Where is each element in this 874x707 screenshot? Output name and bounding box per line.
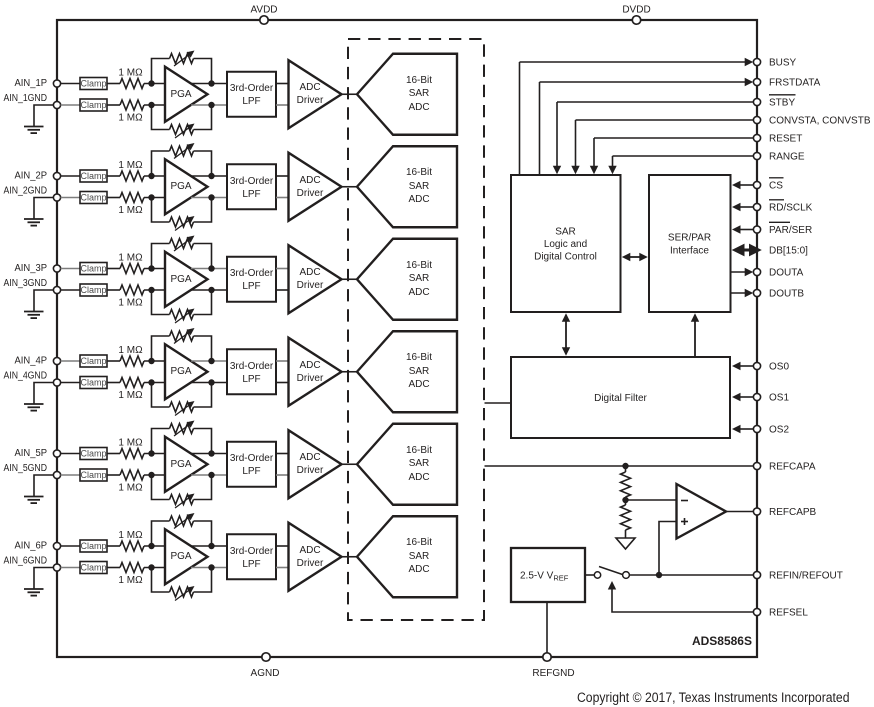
terminal AIN_5GND [53,471,60,478]
wire driver to ADC CH1 [342,93,358,95]
feedback potentiometer CH5 top [152,421,212,454]
wire driver to ADC CH6 [342,556,358,558]
svg-text:AIN_3GND: AIN_3GND [4,278,48,289]
junction CH4P output [208,358,214,364]
svg-text:LPF: LPF [242,96,260,107]
pin PAR/SER [732,222,812,236]
junction CH1P input [148,80,154,86]
wire driver to ADC CH5 [342,463,358,465]
svg-text:AIN_5P: AIN_5P [15,448,48,459]
junction CH6P input [148,543,154,549]
filter LPF CH4 [227,349,276,394]
junction CH3P output [208,265,214,271]
svg-text:Clamp: Clamp [80,264,106,274]
svg-text:SAR: SAR [409,273,430,284]
node AIN_1P [15,78,48,89]
ground symbol CH4 [24,383,54,411]
svg-text:ADC: ADC [408,472,429,483]
clamp CH4P [80,355,107,367]
filter LPF CH1 [227,72,276,117]
ground terminal AGND [251,653,280,679]
feedback potentiometer CH6 bottom [152,568,212,601]
svg-text:ADC: ADC [408,564,429,575]
block SAR Logic and Digital Control [511,175,621,312]
op-amp ADC Driver CH2 [289,153,342,221]
wire clamp to R CH5G [107,474,120,476]
net REFSEL [608,581,809,619]
svg-text:REFCAPB: REFCAPB [769,507,817,518]
pin OS0 [732,362,789,373]
svg-text:PGA: PGA [170,366,191,377]
svg-text:PGA: PGA [170,551,191,562]
clamp CH2G [80,192,107,204]
svg-text:3rd-Order: 3rd-Order [230,361,274,372]
wire op-amp noninverting input [659,522,677,576]
svg-text:DVDD: DVDD [622,5,650,16]
node AIN_5P [15,448,48,459]
svg-text:Clamp: Clamp [80,378,106,388]
terminal AIN_3GND [53,286,60,293]
svg-text:AIN_5GND: AIN_5GND [4,463,48,474]
svg-text:1 MΩ: 1 MΩ [118,530,143,541]
net REFCAPB [726,507,817,518]
block SER/PAR Interface [649,175,731,312]
svg-text:ADC: ADC [299,175,320,186]
wire PGA out CH6G [191,567,227,569]
resistor divider top [621,466,631,500]
wire R to PGA CH5P [144,453,165,455]
svg-text:ADC: ADC [299,267,320,278]
svg-text:Clamp: Clamp [80,563,106,573]
wire AIN_6P to clamp [61,545,81,547]
svg-text:SAR: SAR [409,181,430,192]
wire LPF to driver CH5G [276,474,289,476]
pin DOUTA [731,268,804,279]
svg-text:Driver: Driver [297,188,324,199]
junction CH6G output [208,564,214,570]
filter LPF CH6 [227,534,276,579]
wire LPF to driver CH6P [276,545,289,547]
junction CH2P output [208,173,214,179]
svg-text:AIN_2GND: AIN_2GND [4,186,48,197]
wire AIN_4P to clamp [61,360,81,362]
svg-text:Copyright © 2017, Texas Instru: Copyright © 2017, Texas Instruments Inco… [577,690,850,705]
filter LPF CH2 [227,164,276,209]
pin OS1 [732,393,789,404]
filter LPF CH5 [227,442,276,487]
wire LPF to driver CH6G [276,567,289,569]
wire PGA out CH3G [191,289,227,291]
svg-text:LPF: LPF [242,189,260,200]
op-amp PGA CH4 [165,344,208,399]
wire clamp to R CH1P [107,83,120,85]
op-amp ADC Driver CH4 [289,338,342,406]
block Digital Filter [511,357,730,438]
junction REFCAPA divider [622,463,628,469]
wire clamp to R CH2P [107,175,120,177]
power terminal DVDD [622,5,650,25]
pin RD/SCLK [732,200,813,214]
svg-text:ADC: ADC [299,545,320,556]
terminal AIN_6P [53,542,60,549]
wire VREF to switch [585,574,594,576]
node AIN_6P [15,541,48,552]
wire R to PGA CH4G [144,382,165,384]
terminal AIN_2P [53,172,60,179]
svg-text:Clamp: Clamp [80,449,106,459]
voltage reference 2.5-V VREF [511,548,585,602]
clamp CH1P [80,78,107,90]
resistor divider bottom [621,500,631,538]
resistor 1 M&#937; CH4G [118,378,144,402]
svg-text:LPF: LPF [242,281,260,292]
ground symbol CH1 [24,105,54,133]
svg-text:ADC: ADC [408,379,429,390]
svg-text:1 MΩ: 1 MΩ [118,113,143,124]
svg-text:ADC: ADC [299,360,320,371]
node AIN_4GND [4,371,48,382]
terminal AIN_4GND [53,379,60,386]
wire driver to ADC CH3 [342,278,358,280]
svg-text:16-Bit: 16-Bit [406,75,432,86]
svg-text:OS1: OS1 [769,393,789,404]
wire LPF to driver CH3G [276,289,289,291]
ADC 16-Bit SAR CH2 [357,146,457,227]
svg-text:SAR: SAR [555,227,576,238]
wire clamp to R CH6P [107,545,120,547]
svg-text:ADC: ADC [408,287,429,298]
svg-text:OS2: OS2 [769,425,789,436]
svg-text:RD/SCLK: RD/SCLK [769,203,813,214]
filter LPF CH3 [227,257,276,302]
ADC 16-Bit SAR CH1 [357,54,457,135]
ground terminal REFGND [532,602,574,679]
svg-text:3rd-Order: 3rd-Order [230,453,274,464]
svg-text:3rd-Order: 3rd-Order [230,268,274,279]
junction CH2G output [208,194,214,200]
op-amp ADC Driver CH1 [289,60,342,128]
svg-text:Driver: Driver [297,373,324,384]
resistor 1 M&#937; CH6P [118,530,144,551]
pin CS [732,178,784,192]
IC boundary ADS8586S [57,20,757,657]
svg-text:REFIN/REFOUT: REFIN/REFOUT [769,571,843,582]
clamp CH5G [80,469,107,481]
svg-text:AIN_4GND: AIN_4GND [4,371,48,382]
svg-text:1 MΩ: 1 MΩ [118,160,143,171]
svg-text:Driver: Driver [297,558,324,569]
wire AIN_3P to clamp [61,268,81,270]
svg-text:CONVSTA, CONVSTB: CONVSTA, CONVSTB [769,116,871,127]
wire clamp to R CH3P [107,268,120,270]
clamp CH4G [80,377,107,389]
svg-text:DOUTA: DOUTA [769,268,804,279]
svg-text:REFGND: REFGND [532,668,574,679]
wire PGA out CH2P [191,175,227,177]
svg-text:SER/PAR: SER/PAR [668,233,711,244]
resistor 1 M&#937; CH4P [118,345,144,366]
feedback potentiometer CH6 top [152,513,212,546]
wire divider to op-amp inverting input [626,499,677,501]
svg-text:ADS8586S: ADS8586S [692,634,752,648]
feedback potentiometer CH4 bottom [152,383,212,416]
dashed boundary ADC group [348,39,484,620]
junction CH4P input [148,358,154,364]
label ADS8586S [692,634,752,648]
wire LPF to driver CH2G [276,197,289,199]
wire R to PGA CH2G [144,197,165,199]
clamp CH6P [80,540,107,552]
svg-text:AIN_4P: AIN_4P [15,356,48,367]
junction divider mid [622,497,628,503]
svg-text:1 MΩ: 1 MΩ [118,205,143,216]
bus DB[15:0] [732,244,808,257]
wire AIN_4GND to clamp [61,382,81,384]
wire clamp to R CH2G [107,197,120,199]
junction CH4G output [208,379,214,385]
svg-text:Clamp: Clamp [80,285,106,295]
op-amp ADC Driver CH6 [289,523,342,591]
pin CONVSTA, CONVSTB [571,116,871,175]
wire PGA out CH1G [191,104,227,106]
svg-text:16-Bit: 16-Bit [406,352,432,363]
ADC 16-Bit SAR CH6 [357,516,457,597]
op-amp PGA CH5 [165,437,208,492]
resistor 1 M&#937; CH2G [118,193,144,217]
svg-text:DB[15:0]: DB[15:0] [769,246,808,257]
op-amp PGA CH6 [165,529,208,584]
svg-text:Digital Control: Digital Control [534,252,597,263]
resistor 1 M&#937; CH3P [118,253,144,274]
wire PGA out CH3P [191,268,227,270]
op-amp PGA CH2 [165,159,208,214]
pin BUSY [520,58,797,175]
wire Digital Filter to SER/PAR [691,313,699,357]
junction CH1G output [208,102,214,108]
svg-text:AVDD: AVDD [250,5,277,16]
pin FRSTDATA [540,78,821,175]
svg-text:Clamp: Clamp [80,470,106,480]
svg-text:PGA: PGA [170,274,191,285]
svg-text:PGA: PGA [170,459,191,470]
wire LPF to driver CH5P [276,453,289,455]
svg-text:LPF: LPF [242,374,260,385]
ADC 16-Bit SAR CH3 [357,239,457,320]
analog ground symbol [616,538,635,549]
wire clamp to R CH6G [107,567,120,569]
label copyright [577,690,850,705]
junction CH3G output [208,287,214,293]
op-amp ADC Driver CH3 [289,245,342,313]
svg-text:Driver: Driver [297,95,324,106]
junction CH6P output [208,543,214,549]
feedback potentiometer CH5 bottom [152,475,212,508]
svg-text:Interface: Interface [670,246,709,257]
wire R to PGA CH1P [144,83,165,85]
wire LPF to driver CH4P [276,360,289,362]
junction CH4G input [148,379,154,385]
wire clamp to R CH3G [107,289,120,291]
node AIN_2P [15,171,48,182]
clamp CH1G [80,99,107,111]
wire clamp to R CH1G [107,104,120,106]
svg-text:1 MΩ: 1 MΩ [118,438,143,449]
op-amp ADC Driver CH5 [289,430,342,498]
op-amp PGA CH1 [165,67,208,122]
wire R to PGA CH2P [144,175,165,177]
svg-text:REFSEL: REFSEL [769,608,808,619]
wire LPF to driver CH3P [276,268,289,270]
terminal AIN_4P [53,357,60,364]
junction CH1G input [148,102,154,108]
svg-text:LPF: LPF [242,559,260,570]
clamp CH3P [80,263,107,275]
pin DOUTB [731,289,805,300]
terminal AIN_2GND [53,194,60,201]
wire AIN_2GND to clamp [61,197,81,199]
svg-text:1 MΩ: 1 MΩ [118,68,143,79]
wire driver to ADC CH4 [342,371,358,373]
svg-text:DOUTB: DOUTB [769,289,804,300]
svg-text:Clamp: Clamp [80,100,106,110]
svg-text:PGA: PGA [170,181,191,192]
svg-text:1 MΩ: 1 MΩ [118,345,143,356]
clamp CH6G [80,562,107,574]
node AIN_2GND [4,186,48,197]
resistor 1 M&#937; CH5P [118,438,144,459]
svg-text:AGND: AGND [251,668,280,679]
wire AIN_2P to clamp [61,175,81,177]
svg-text:LPF: LPF [242,466,260,477]
ADC 16-Bit SAR CH4 [357,331,457,412]
terminal AIN_5P [53,450,60,457]
feedback potentiometer CH1 top [152,51,212,84]
terminal AIN_1GND [53,101,60,108]
junction REFIN [656,572,662,578]
ground symbol CH2 [24,198,54,226]
bus SAR to SER/PAR [622,253,648,261]
feedback potentiometer CH2 top [152,143,212,176]
svg-text:STBY: STBY [769,98,795,109]
node AIN_3P [15,263,48,274]
resistor 1 M&#937; CH3G [118,285,144,309]
svg-text:3rd-Order: 3rd-Order [230,83,274,94]
svg-text:REFCAPA: REFCAPA [769,462,816,473]
pin RESET [590,134,803,175]
junction CH5G input [148,472,154,478]
svg-text:SAR: SAR [409,366,430,377]
net REFIN/REFOUT [630,571,843,582]
feedback potentiometer CH4 top [152,328,212,361]
net REFCAPA [485,462,816,473]
ground symbol CH3 [24,290,54,318]
wire PGA out CH5G [191,474,227,476]
junction CH6G input [148,564,154,570]
wire PGA out CH5P [191,453,227,455]
svg-text:RESET: RESET [769,134,802,145]
junction CH3P input [148,265,154,271]
wire AIN_5P to clamp [61,453,81,455]
feedback potentiometer CH1 bottom [152,105,212,138]
wire AIN_6GND to clamp [61,567,81,569]
wire clamp to R CH5P [107,453,120,455]
switch REFSEL select [594,567,629,579]
ground symbol CH6 [24,568,54,596]
junction CH3G input [148,287,154,293]
svg-text:AIN_2P: AIN_2P [15,171,48,182]
wire AIN_1GND to clamp [61,104,81,106]
svg-text:16-Bit: 16-Bit [406,537,432,548]
resistor 1 M&#937; CH2P [118,160,144,181]
svg-text:AIN_1GND: AIN_1GND [4,93,48,104]
wire PGA out CH4P [191,360,227,362]
wire clamp to R CH4G [107,382,120,384]
feedback potentiometer CH3 top [152,236,212,269]
wire R to PGA CH6P [144,545,165,547]
svg-text:16-Bit: 16-Bit [406,445,432,456]
svg-text:1 MΩ: 1 MΩ [118,390,143,401]
junction CH5P input [148,450,154,456]
terminal AIN_3P [53,265,60,272]
svg-text:BUSY: BUSY [769,58,797,69]
node AIN_6GND [4,556,48,567]
node AIN_4P [15,356,48,367]
clamp CH3G [80,284,107,296]
pin OS2 [732,425,789,436]
svg-text:AIN_1P: AIN_1P [15,78,48,89]
ADC 16-Bit SAR CH5 [357,424,457,505]
ground symbol CH5 [24,475,54,503]
svg-text:AIN_3P: AIN_3P [15,263,48,274]
svg-text:Digital Filter: Digital Filter [594,393,647,404]
svg-text:SAR: SAR [409,551,430,562]
wire LPF to driver CH4G [276,382,289,384]
svg-text:Driver: Driver [297,465,324,476]
wire R to PGA CH6G [144,567,165,569]
wire R to PGA CH4P [144,360,165,362]
op-amp PGA CH3 [165,252,208,307]
resistor 1 M&#937; CH1G [118,100,144,124]
svg-text:Clamp: Clamp [80,171,106,181]
svg-text:ADC: ADC [408,194,429,205]
node AIN_1GND [4,93,48,104]
clamp CH5P [80,448,107,460]
bus SAR to Digital Filter [562,313,570,356]
svg-text:16-Bit: 16-Bit [406,260,432,271]
svg-text:Clamp: Clamp [80,193,106,203]
pin STBY [553,95,796,174]
svg-text:ADC: ADC [408,102,429,113]
resistor 1 M&#937; CH5G [118,470,144,494]
terminal AIN_1P [53,80,60,87]
wire driver to ADC CH2 [342,186,358,188]
node AIN_3GND [4,278,48,289]
pin RANGE [608,152,805,175]
svg-text:Logic and: Logic and [544,239,587,250]
wire LPF to driver CH1G [276,104,289,106]
svg-text:Clamp: Clamp [80,541,106,551]
svg-text:3rd-Order: 3rd-Order [230,546,274,557]
svg-text:PAR/SER: PAR/SER [769,225,812,236]
svg-text:OS0: OS0 [769,362,789,373]
resistor 1 M&#937; CH6G [118,563,144,587]
wire clamp to R CH4P [107,360,120,362]
wire ADC group to Digital Filter [485,402,512,404]
svg-text:Driver: Driver [297,280,324,291]
svg-text:ADC: ADC [299,452,320,463]
wire PGA out CH4G [191,382,227,384]
svg-text:3rd-Order: 3rd-Order [230,176,274,187]
